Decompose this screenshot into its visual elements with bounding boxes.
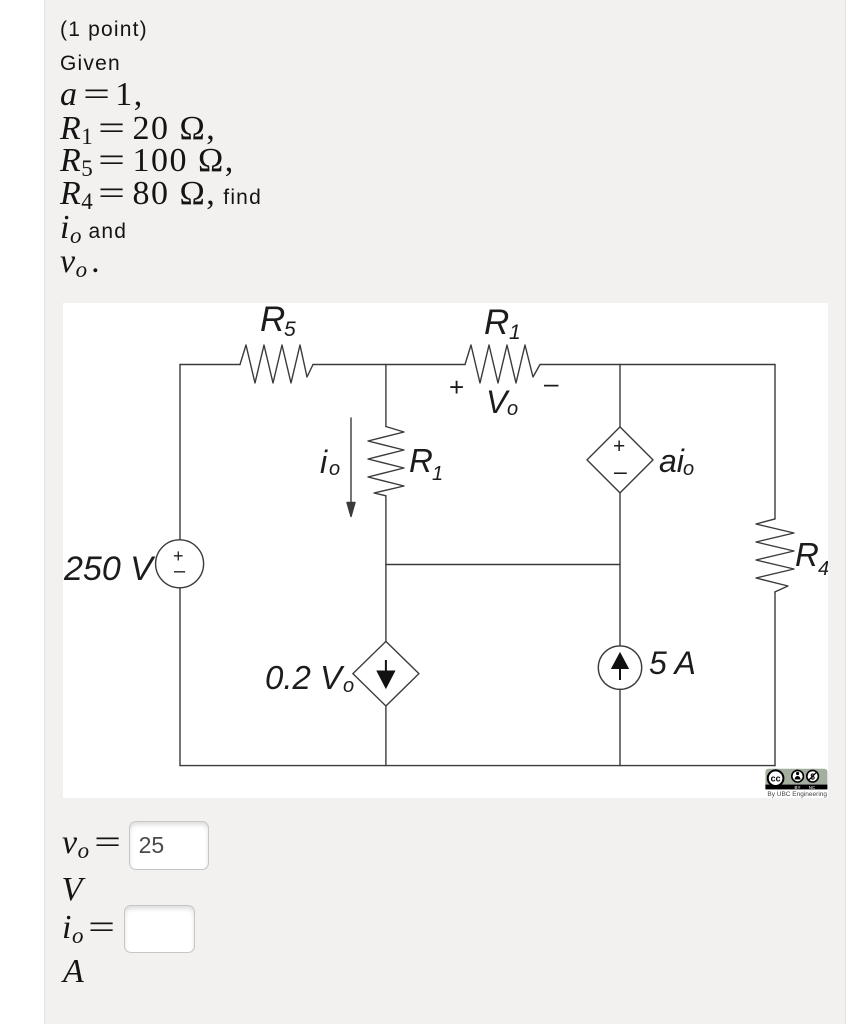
svg-text:i: i (320, 444, 328, 480)
svg-text:o: o (329, 458, 340, 480)
input box io (124, 905, 195, 953)
svg-text:0.2 V: 0.2 V (265, 659, 345, 696)
wire top-right (540, 364, 775, 366)
svg-text:+: + (449, 372, 464, 402)
arrow in 5A circle (613, 654, 628, 680)
svg-text:250 V: 250 V (63, 550, 156, 588)
svg-text:+: + (613, 435, 625, 458)
wire mid branch top (385, 365, 387, 427)
dep source 0.2Vo diamond (353, 641, 419, 706)
svg-text:By UBC Engineering: By UBC Engineering (767, 791, 827, 798)
svg-text:ai: ai (659, 443, 685, 479)
svg-text:–: – (544, 368, 559, 398)
circuit image (63, 303, 828, 798)
CC badge (765, 769, 827, 798)
resistor R4 (756, 519, 794, 592)
voltage source 250V (156, 540, 204, 588)
wire ai branch mid (619, 493, 621, 646)
svg-text:NC: NC (809, 785, 816, 790)
wire bottom (180, 765, 775, 767)
svg-text:–: – (614, 458, 627, 484)
wire right vertical upper (774, 365, 776, 519)
svg-text:R: R (795, 536, 819, 573)
wire ai branch top (619, 365, 621, 427)
svg-text:1: 1 (509, 321, 521, 344)
wire mid branch bottom (385, 706, 387, 766)
unit A (63, 953, 84, 991)
wire ai branch bottom (619, 689, 621, 765)
svg-text:o: o (343, 675, 354, 697)
current source 5A (598, 646, 641, 689)
svg-text:o: o (683, 458, 694, 480)
svg-text:o: o (507, 398, 518, 420)
svg-text:5: 5 (284, 318, 296, 341)
input box vo (129, 821, 210, 869)
svg-text:R: R (409, 442, 433, 479)
resistor R5 (240, 345, 313, 383)
resistor R1 mid (368, 427, 404, 496)
svg-text:cc: cc (771, 774, 781, 784)
svg-text:5 A: 5 A (649, 645, 696, 681)
wire mid branch (385, 496, 387, 642)
wire top-left (180, 364, 240, 366)
svg-text:–: – (174, 560, 186, 582)
middle rail (386, 564, 620, 566)
svg-text:R: R (484, 303, 509, 342)
dep source ai diamond (587, 427, 653, 493)
svg-text:R: R (260, 303, 285, 339)
unit V (62, 871, 83, 909)
wire right vertical lower (774, 592, 776, 766)
svg-text:BY: BY (794, 785, 800, 790)
io arrow (350, 418, 352, 508)
resistor R1 top (465, 345, 540, 383)
arrow in 0.2Vo diamond (378, 660, 394, 687)
svg-text:1: 1 (432, 463, 443, 485)
problem text (60, 18, 148, 42)
wire left vertical (179, 365, 181, 540)
wire top-mid (313, 364, 465, 366)
answer vo line (62, 824, 127, 864)
svg-text:4: 4 (818, 558, 828, 580)
answer io line (62, 909, 121, 949)
wire left lower (179, 588, 181, 766)
